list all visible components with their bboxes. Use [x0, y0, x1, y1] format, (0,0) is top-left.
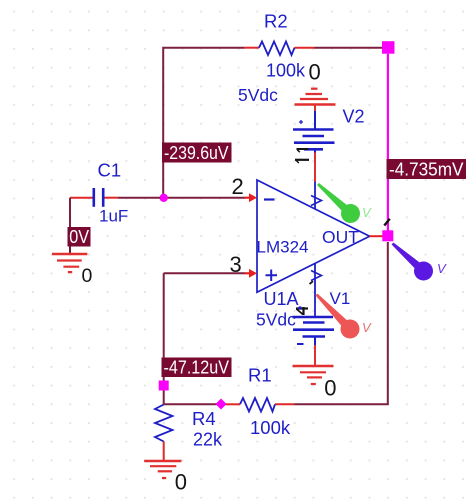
ground 0 (below V1)	[293, 366, 337, 401]
wire	[295, 242, 388, 404]
svg-text:R1: R1	[248, 365, 272, 386]
svg-text:-4.735mV: -4.735mV	[389, 159, 464, 179]
wire	[315, 47, 384, 49]
probe red (V at op-amp V- pin)	[316, 294, 373, 339]
node (selected endpoint)	[382, 41, 395, 54]
pin 2	[232, 174, 258, 202]
svg-text:LM324: LM324	[257, 238, 309, 257]
svg-text:-239.6uV: -239.6uV	[164, 143, 229, 163]
bias label -47.12uV	[162, 358, 232, 378]
svg-text:V: V	[362, 320, 372, 335]
svg-text:-47.12uV: -47.12uV	[164, 358, 230, 378]
svg-text:100k: 100k	[266, 61, 306, 81]
svg-text:V1: V1	[330, 289, 351, 308]
svg-text:0: 0	[309, 60, 321, 85]
wire	[69, 198, 71, 247]
bias label 0V	[68, 227, 91, 247]
wire	[164, 403, 226, 405]
svg-text:OUT: OUT	[322, 227, 359, 247]
wire	[163, 273, 165, 404]
wire	[314, 153, 316, 182]
svg-text:0: 0	[324, 376, 336, 401]
svg-text:22k: 22k	[193, 430, 223, 450]
pin 4 label	[296, 307, 308, 315]
ground 0 (below C1)	[52, 247, 93, 288]
svg-text:1uF: 1uF	[99, 207, 128, 226]
ground 0 (below R4)	[144, 461, 187, 495]
svg-text:V: V	[362, 205, 372, 220]
svg-text:100k: 100k	[250, 417, 291, 438]
wire	[164, 197, 245, 199]
bias label -4.735mV	[387, 159, 467, 179]
svg-text:R4: R4	[192, 408, 216, 429]
output pin	[370, 235, 383, 237]
svg-text:5Vdc: 5Vdc	[256, 310, 296, 330]
svg-text:U1A: U1A	[264, 289, 299, 309]
node OUT (selected endpoint)	[382, 230, 393, 241]
svg-text:C1: C1	[98, 160, 122, 181]
op-amp U1A	[257, 180, 370, 309]
pin 1	[384, 219, 390, 226]
capacitor C1	[70, 160, 128, 226]
svg-text:5Vdc: 5Vdc	[238, 85, 278, 105]
node (junction)	[160, 194, 168, 202]
resistor R1	[226, 365, 295, 439]
resistor R2	[244, 11, 315, 81]
pin 3	[230, 252, 258, 278]
svg-text:0: 0	[175, 470, 187, 495]
bias label -239.6uV	[162, 143, 232, 163]
ground 0 (above V2)	[295, 60, 336, 105]
voltage source V1	[256, 281, 350, 366]
probe purple (V at OUT)	[392, 243, 447, 281]
voltage source V2	[238, 85, 365, 153]
wire	[314, 292, 316, 317]
svg-text:R2: R2	[264, 11, 288, 32]
svg-text:V: V	[437, 261, 447, 276]
node (junction, selected)	[216, 399, 227, 410]
probe green (V at op-amp V+ pin)	[317, 183, 372, 223]
wire	[164, 272, 245, 274]
svg-text:V2: V2	[343, 107, 365, 127]
wire (selected)	[387, 54, 389, 231]
node (selected endpoint)	[159, 381, 169, 391]
pin 11 label	[295, 149, 309, 163]
svg-text:0: 0	[82, 265, 93, 287]
svg-text:0V: 0V	[69, 227, 89, 247]
resistor R4	[155, 405, 223, 461]
svg-text:2: 2	[232, 174, 244, 199]
wire	[163, 48, 244, 198]
wire	[118, 197, 160, 199]
